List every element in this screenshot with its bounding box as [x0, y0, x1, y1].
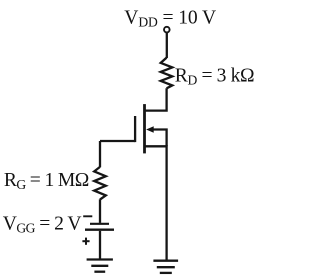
svg-text:VDD = 10 V: VDD = 10 V — [124, 7, 216, 29]
svg-text:RG = 1 MΩ: RG = 1 MΩ — [4, 170, 89, 192]
svg-text:RD = 3 kΩ: RD = 3 kΩ — [175, 65, 254, 87]
svg-text:VGG = 2 V: VGG = 2 V — [3, 213, 82, 235]
